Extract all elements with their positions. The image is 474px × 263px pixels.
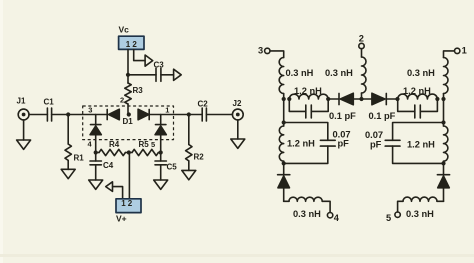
resistor R4 xyxy=(96,140,129,156)
svg-text:C2: C2 xyxy=(198,100,209,109)
diode module dashed outline xyxy=(83,106,174,140)
wire J2 down to ground xyxy=(237,120,239,139)
diode shunt right (anode down) xyxy=(437,163,449,201)
svg-text:C3: C3 xyxy=(154,61,165,70)
svg-text:2: 2 xyxy=(128,199,133,208)
svg-text:pF: pF xyxy=(370,140,382,150)
svg-text:1.2 nH: 1.2 nH xyxy=(403,86,431,96)
svg-text:0.1 pF: 0.1 pF xyxy=(329,111,356,121)
node K junction (right column top) xyxy=(441,97,445,101)
node A junction xyxy=(66,112,70,116)
capacitor C5 xyxy=(155,153,177,181)
svg-text:0.3 nH: 0.3 nH xyxy=(293,209,321,219)
svg-text:1: 1 xyxy=(121,199,126,208)
svg-text:1: 1 xyxy=(462,46,467,56)
svg-text:1.2 nH: 1.2 nH xyxy=(287,139,315,149)
svg-text:2: 2 xyxy=(359,34,364,44)
node E junction (left column top) xyxy=(282,97,286,101)
svg-text:R3: R3 xyxy=(133,86,144,95)
node H junction (center) xyxy=(359,97,363,101)
ground (J2) xyxy=(231,139,245,148)
svg-text:pF: pF xyxy=(338,139,350,149)
wire V+ pin1 to port arrow xyxy=(113,187,123,199)
wire node D to V+ pin2 xyxy=(128,153,130,199)
svg-text:C4: C4 xyxy=(103,161,114,170)
ground (C5) xyxy=(154,180,168,189)
inductor L5 1.2 nH (mid right horizontal) xyxy=(398,86,438,99)
inductor L6 1.2 nH (left vertical) xyxy=(279,126,315,163)
wire terminal 1 to L3 xyxy=(444,51,455,58)
node D junction (V+ tap) xyxy=(127,150,131,154)
node N junction (right tank top) xyxy=(441,120,445,124)
node O junction (right tank bottom) xyxy=(441,161,445,165)
svg-text:R2: R2 xyxy=(194,153,205,162)
svg-text:4: 4 xyxy=(334,213,340,223)
svg-text:2: 2 xyxy=(120,96,124,105)
svg-text:0.07: 0.07 xyxy=(365,130,383,140)
node F junction (L4 left end) xyxy=(287,97,291,101)
V+ source box xyxy=(116,199,141,224)
inductor L4 1.2 nH (mid left horizontal) xyxy=(289,86,328,99)
svg-text:5: 5 xyxy=(151,140,155,149)
svg-text:R4: R4 xyxy=(109,140,120,149)
terminal 2 xyxy=(359,34,364,49)
terminal 4 xyxy=(327,213,339,224)
wire Vc pin1 down xyxy=(127,49,129,74)
inductor L7 0.3 nH (bottom left) xyxy=(284,197,330,219)
svg-text:R5: R5 xyxy=(139,140,150,149)
svg-text:1.2 nH: 1.2 nH xyxy=(407,140,435,150)
bottom band shading xyxy=(0,254,474,257)
wire Vc pin2 to port arrow xyxy=(134,49,145,60)
svg-text:R1: R1 xyxy=(74,154,85,163)
diode D1 shunt right (node 5 to 1) xyxy=(155,115,166,153)
wire left column down xyxy=(283,99,285,126)
connector J2 xyxy=(232,99,243,120)
svg-text:3: 3 xyxy=(88,106,92,115)
svg-text:0.3 nH: 0.3 nH xyxy=(325,68,353,78)
port arrow (V+ pin 1) xyxy=(106,182,113,192)
diode D1 series left (cathode left) xyxy=(107,109,119,120)
capacitor 0.07 pF (left) xyxy=(284,123,351,164)
inductor L1 0.3 nH (top left) xyxy=(279,58,313,100)
svg-text:0.3 nH: 0.3 nH xyxy=(406,209,434,219)
node I junction (L5 left end) xyxy=(395,97,399,101)
svg-text:V+: V+ xyxy=(116,214,127,224)
wire C3 to port arrow xyxy=(161,74,174,76)
diode D1 series right (cathode right) xyxy=(138,109,149,120)
resistor R3 xyxy=(125,75,143,115)
resistor R2 xyxy=(186,115,205,171)
wire terminal 3 to L1 xyxy=(270,51,284,58)
ground (R2) xyxy=(182,170,196,179)
node M junction (left tank bottom) xyxy=(282,161,286,165)
svg-text:0.3 nH: 0.3 nH xyxy=(407,68,435,78)
terminal 1 xyxy=(455,46,467,56)
wire terminal 2 to L2 xyxy=(361,49,363,57)
ground (J1) xyxy=(17,140,31,149)
wire J1 down to ground xyxy=(23,120,25,140)
capacitor 0.1 pF (right tank) xyxy=(369,99,438,121)
node B junction (Vc/C3/R3) xyxy=(126,73,130,77)
svg-text:0.3 nH: 0.3 nH xyxy=(286,68,314,78)
node C junction (R2 tap) xyxy=(187,112,191,116)
capacitor C4 xyxy=(90,153,114,181)
resistor R1 xyxy=(65,115,84,170)
inductor L2 0.3 nH (top center) xyxy=(325,57,366,99)
svg-text:D1: D1 xyxy=(123,117,134,126)
capacitor C3 xyxy=(154,61,165,82)
capacitor 0.1 pF (left tank) xyxy=(289,99,356,121)
wire node B to C3 xyxy=(128,74,156,76)
diode series left (cathode left) xyxy=(339,93,362,105)
svg-text:2: 2 xyxy=(132,40,137,49)
Vc source box xyxy=(119,25,145,50)
wire right column down xyxy=(443,99,445,126)
capacitor C2 xyxy=(198,100,209,122)
node J junction (L5 right end) xyxy=(435,97,439,101)
left page edge shading xyxy=(0,0,3,263)
resistor R5 xyxy=(129,140,161,156)
svg-text:J1: J1 xyxy=(17,97,26,106)
node 5 junction xyxy=(159,150,163,154)
terminal 5 xyxy=(386,212,400,223)
terminal 3 xyxy=(258,46,270,56)
wire node G to diode xyxy=(328,98,339,100)
svg-text:0.1 pF: 0.1 pF xyxy=(369,111,396,121)
svg-text:C5: C5 xyxy=(167,163,178,172)
wire node 1 to C2 xyxy=(149,114,202,116)
connector J1 xyxy=(17,97,30,120)
diode D1 shunt left (node 4 to 3) xyxy=(90,115,101,153)
inductor L8 1.2 nH (right vertical) xyxy=(407,126,448,163)
inductor L3 0.3 nH (top right) xyxy=(407,58,448,100)
capacitor C1 xyxy=(44,98,55,122)
node L junction (left tank top) xyxy=(282,120,286,124)
svg-text:1.2 nH: 1.2 nH xyxy=(294,86,322,96)
inductor L9 0.3 nH (bottom right) xyxy=(398,197,444,219)
svg-text:J2: J2 xyxy=(233,99,242,108)
node 2 junction xyxy=(127,112,131,116)
wire C2 to J2 xyxy=(206,114,232,116)
node 4 junction xyxy=(94,150,98,154)
svg-text:C1: C1 xyxy=(44,98,55,107)
svg-text:1: 1 xyxy=(126,40,131,49)
capacitor 0.07 pF (right) xyxy=(365,123,444,164)
svg-text:3: 3 xyxy=(258,46,263,56)
port arrow (Vc pin 2) xyxy=(145,55,153,66)
ground (C4) xyxy=(89,180,103,189)
port arrow (C3 out) xyxy=(174,69,182,80)
svg-text:5: 5 xyxy=(386,213,391,223)
node G junction (L4 right end) xyxy=(326,97,330,101)
svg-text:1: 1 xyxy=(165,106,169,115)
ground (R1) xyxy=(61,169,75,178)
svg-text:Vc: Vc xyxy=(119,25,130,35)
diode shunt left (anode down) xyxy=(278,163,290,201)
wire C1 to node A xyxy=(52,114,107,116)
diode series right (cathode right) xyxy=(362,93,398,105)
wire J1 to C1 xyxy=(29,114,47,116)
